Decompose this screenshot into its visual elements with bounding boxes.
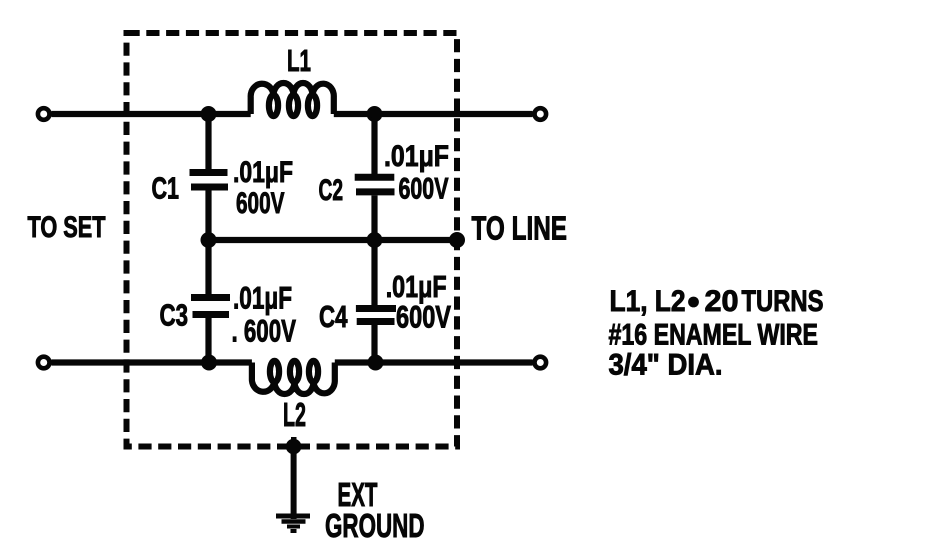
svg-text:L1: L1 [287,43,311,78]
wire bottom-left segment [52,359,252,365]
capacitor C3 [191,240,230,363]
value .600V (C3) [232,313,297,349]
label TO LINE [472,210,568,247]
shield enclosure (dashed box) [127,33,458,447]
svg-text:20: 20 [705,285,739,318]
value .01uF (C3) [233,280,292,316]
svg-text:.01μF: .01μF [233,280,292,316]
node (enclosure bottom / ground junction) [286,437,302,454]
wire top-left segment [52,111,251,117]
label L2 [283,396,306,433]
note (L1/L2 winding spec) [609,285,824,382]
node (middle wire at enclosure edge) [449,232,465,248]
svg-text:600V: 600V [399,173,449,206]
ground (earth symbol) [276,516,310,531]
node (middle wire / C1-C3 branch) [201,232,217,248]
value 600V (C2) [399,173,449,206]
value .01uF (C2) [384,140,449,173]
node (middle wire / C2-C4 branch) [367,232,383,248]
svg-text:GROUND: GROUND [325,507,425,538]
value .01uF (C1) [233,156,293,189]
node (bottom wire / C3 branch) [201,355,217,371]
label EXT GROUND [325,476,425,538]
svg-text:.01μF: .01μF [233,156,293,189]
svg-text:TO LINE: TO LINE [472,210,568,247]
label C2 [319,174,344,207]
label L1 [287,43,311,78]
value 600V (C1) [236,187,285,220]
label C3 [160,298,189,333]
svg-text:600V: 600V [396,299,451,335]
capacitor C4 [356,240,396,363]
terminal (top left) [38,108,50,120]
value 600V (C4) [396,299,451,335]
wire top-right segment [334,111,533,117]
terminal (bottom left) [38,357,50,369]
terminal (top right) [535,108,547,120]
node (top wire / C1 branch) [201,106,217,122]
svg-text:C3: C3 [160,298,189,333]
svg-text:TURNS: TURNS [742,285,824,318]
wire bottom-right segment [335,359,533,365]
label TO SET [28,211,106,244]
inductor L2 [252,361,335,394]
svg-text:3/4" DIA.: 3/4" DIA. [609,349,723,382]
svg-text:. 600V: . 600V [232,313,297,349]
svg-text:.01μF: .01μF [384,140,449,173]
svg-text:C2: C2 [319,174,344,207]
node (top wire / C2 branch) [367,106,383,122]
label C4 [319,299,348,334]
capacitor C2 [355,114,395,240]
svg-text:C4: C4 [319,299,348,334]
capacitor C1 [190,114,229,240]
label C1 [152,171,180,206]
value .01uF (C4) [386,270,447,304]
svg-text:TO SET: TO SET [28,211,106,244]
wire ground stub [291,447,297,520]
inductor L1 [251,83,334,116]
svg-text:600V: 600V [236,187,285,220]
node (bottom wire / C4 branch) [368,355,384,371]
svg-text:L2: L2 [283,396,306,433]
wire middle segment (to line tap) [209,237,458,243]
terminal (bottom right) [535,357,547,369]
svg-text:L1, L2: L1, L2 [610,285,686,318]
svg-text:C1: C1 [152,171,180,206]
svg-text:#16 ENAMEL WIRE: #16 ENAMEL WIRE [609,319,819,352]
